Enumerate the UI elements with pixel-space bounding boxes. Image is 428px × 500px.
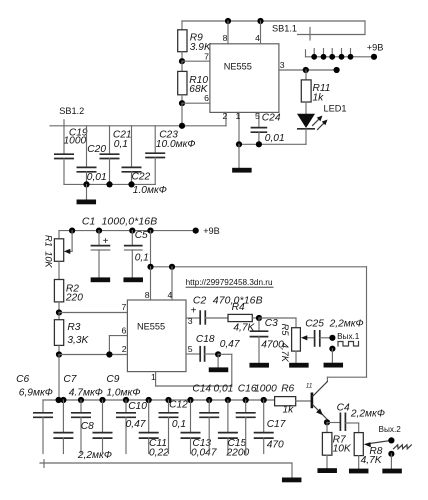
svg-text:SB1.2: SB1.2 xyxy=(59,106,84,116)
capacitor C20 xyxy=(86,126,88,167)
svg-text:C17: C17 xyxy=(267,419,286,430)
wire R4 to node xyxy=(252,317,259,319)
node C22 bottom junction xyxy=(128,181,134,187)
svg-text:2,2мкФ: 2,2мкФ xyxy=(329,319,364,330)
LED LED1 xyxy=(297,114,315,128)
svg-text:0,1: 0,1 xyxy=(172,419,186,430)
svg-text:R5: R5 xyxy=(280,324,290,337)
capacitor C3 xyxy=(258,318,260,331)
svg-text:2: 2 xyxy=(222,111,227,121)
wire R3 to ground bus xyxy=(58,355,60,401)
svg-text:0,01: 0,01 xyxy=(265,133,285,144)
ground output 2 xyxy=(390,454,392,469)
svg-text:1,0мкФ: 1,0мкФ xyxy=(106,387,140,398)
svg-text:3: 3 xyxy=(280,60,285,70)
svg-text:C2: C2 xyxy=(193,295,207,306)
capacitor C25 xyxy=(314,330,316,347)
node emitter junction xyxy=(324,419,330,425)
svg-text:6,9мкФ: 6,9мкФ xyxy=(19,387,53,398)
switch SB1.1 xyxy=(298,21,366,35)
svg-text:+9B: +9B xyxy=(367,43,384,53)
svg-text:+: + xyxy=(103,236,109,247)
svg-text:6: 6 xyxy=(204,93,209,103)
node C24 ground junction xyxy=(256,141,262,147)
Q1 collector xyxy=(313,382,328,397)
svg-text:0,1: 0,1 xyxy=(135,252,149,263)
capacitor C15 xyxy=(227,400,229,432)
capacitor C1 electrolytic xyxy=(98,231,100,246)
LED1 light arrows xyxy=(313,116,328,130)
capacitor C11 xyxy=(148,400,150,432)
capacitor C12 xyxy=(168,400,170,412)
svg-text:1000: 1000 xyxy=(64,136,87,147)
node output 1 ground terminal xyxy=(329,346,335,352)
node pin4 branch junction xyxy=(169,264,175,270)
svg-text:0,47: 0,47 xyxy=(220,339,240,350)
svg-text:6: 6 xyxy=(122,325,127,335)
wire R10 to rail xyxy=(181,103,183,126)
wire pin 5 chip2 xyxy=(186,353,199,355)
node pin3/R11 junction xyxy=(303,67,309,73)
wire ground bus top circuit xyxy=(239,143,306,145)
node C14 bus junction xyxy=(206,397,212,403)
svg-text:Вых.1: Вых.1 xyxy=(337,332,360,341)
wire bottom ground line xyxy=(40,462,292,464)
wire pin 2 chip2 xyxy=(59,354,127,356)
node C5 rail junction xyxy=(129,228,135,234)
svg-text:NE555: NE555 xyxy=(137,322,165,332)
svg-text:1000: 1000 xyxy=(254,383,277,394)
capacitor C16 xyxy=(245,400,247,412)
capacitor C5 xyxy=(131,231,133,246)
R5 wiper arm xyxy=(306,337,314,339)
wire pin 6 chip2 xyxy=(109,335,127,337)
wire node to R5 xyxy=(259,317,296,319)
node R10 rail junction xyxy=(179,123,185,129)
node pin3 wire end xyxy=(334,67,340,73)
svg-text:0,1: 0,1 xyxy=(114,139,128,150)
op-amp U1 NE555 timer xyxy=(210,44,279,113)
resistor R11 xyxy=(305,70,307,80)
node pin8 top rail junction xyxy=(225,18,231,24)
node R4/C3/R5 junction xyxy=(256,315,262,321)
capacitor C21 xyxy=(109,126,111,154)
connector pin dots xyxy=(311,54,317,60)
potentiometer R8 xyxy=(354,433,363,456)
ground output 1 xyxy=(331,349,333,363)
svg-text:4,7K: 4,7K xyxy=(280,343,290,363)
wire pin 4 xyxy=(260,21,262,44)
wire +9V top rail xyxy=(182,20,365,22)
node C13 bus junction xyxy=(187,397,193,403)
svg-text:NE555: NE555 xyxy=(224,62,252,72)
ground R8 xyxy=(349,469,369,474)
svg-text:C14: C14 xyxy=(192,383,211,394)
svg-text:2,2мкФ: 2,2мкФ xyxy=(77,450,112,461)
node C1 rail junction xyxy=(96,228,102,234)
wire pin 3 chip2 xyxy=(186,317,199,319)
svg-text:0,01: 0,01 xyxy=(214,383,234,394)
ground C3 xyxy=(249,363,269,368)
svg-text:8: 8 xyxy=(145,290,150,300)
wire C4 to R8 xyxy=(345,422,358,424)
sawtooth wave symbol xyxy=(394,445,412,449)
capacitor C13 xyxy=(190,400,192,432)
wire ground bus bottom xyxy=(43,399,275,401)
svg-text:C5: C5 xyxy=(135,230,148,241)
svg-text:0,47: 0,47 xyxy=(126,419,146,430)
svg-text:2: 2 xyxy=(122,344,127,354)
svg-text:C20: C20 xyxy=(87,144,106,155)
node R3 bus junction xyxy=(56,397,62,403)
svg-text:C9: C9 xyxy=(106,374,119,385)
svg-text:C1: C1 xyxy=(82,217,96,228)
svg-text:3: 3 xyxy=(188,316,193,326)
svg-text:4.7мкФ: 4.7мкФ xyxy=(69,387,103,398)
svg-text:10.0мкФ: 10.0мкФ xyxy=(156,139,196,150)
svg-text:8: 8 xyxy=(223,33,228,43)
svg-text:R4: R4 xyxy=(232,302,245,313)
svg-text:C18: C18 xyxy=(196,334,215,345)
node C16 bus junction xyxy=(243,397,249,403)
wire pin 6 xyxy=(182,102,210,104)
svg-text:10K: 10K xyxy=(44,251,54,268)
capacitor C24 xyxy=(251,127,268,129)
svg-text:5: 5 xyxy=(188,344,193,354)
potentiometer R5 xyxy=(292,328,301,351)
svg-text:3,3K: 3,3K xyxy=(67,335,89,346)
node R1 wiper rail junction xyxy=(69,228,75,234)
ground top circuit xyxy=(238,144,240,168)
capacitor C18 xyxy=(199,346,201,362)
capacitor C4 plates xyxy=(339,413,341,432)
svg-text:R3: R3 xyxy=(67,322,80,333)
node +9B terminal xyxy=(371,54,377,60)
ground left top circuit xyxy=(86,184,88,199)
svg-text:220: 220 xyxy=(65,292,83,303)
node pin6/pin2 junction xyxy=(106,351,112,357)
wire collector feed xyxy=(366,267,368,377)
wire pin 1 chip2 xyxy=(155,372,157,386)
svg-text:LED1: LED1 xyxy=(324,104,347,114)
svg-text:SB1.1: SB1.1 xyxy=(272,24,297,34)
svg-text:C25: C25 xyxy=(305,319,324,330)
capacitor C2 electrolytic xyxy=(199,310,201,324)
node C20 bottom junction xyxy=(83,181,89,187)
svg-text:4: 4 xyxy=(255,33,260,43)
R1 wiper arm xyxy=(71,231,73,252)
svg-text:1: 1 xyxy=(151,372,156,382)
wire pin 1 xyxy=(238,112,240,144)
svg-text:4: 4 xyxy=(167,290,172,300)
svg-text:0,01: 0,01 xyxy=(87,172,107,183)
svg-text:C8: C8 xyxy=(81,421,94,432)
wire pin 8 xyxy=(227,21,229,44)
wire R6 to base xyxy=(296,400,312,402)
wire pin 7 xyxy=(182,60,210,62)
node R2/R3/pin7 junction xyxy=(56,309,62,315)
capacitor C10 xyxy=(125,400,127,412)
node C10 bus junction xyxy=(123,397,129,403)
resistor R4 xyxy=(228,314,252,321)
svg-text:C7: C7 xyxy=(63,374,76,385)
svg-text:+: + xyxy=(191,305,197,316)
svg-text:C22: C22 xyxy=(132,172,151,183)
svg-text:+9B: +9B xyxy=(203,226,220,236)
capacitor C23 xyxy=(154,126,156,153)
capacitor C8 xyxy=(62,400,64,432)
capacitor C14 xyxy=(208,400,210,412)
svg-text:7: 7 xyxy=(204,51,209,61)
svg-text:7: 7 xyxy=(122,302,127,312)
resistor R6 xyxy=(275,397,296,406)
connector pin ticks xyxy=(313,49,315,55)
Q1 emitter xyxy=(313,405,327,419)
svg-text:0,22: 0,22 xyxy=(149,447,169,458)
svg-text:0,047: 0,047 xyxy=(191,447,217,458)
ground R7 xyxy=(317,468,337,473)
node supply branch junction xyxy=(147,228,153,234)
capacitor C7 xyxy=(80,400,82,412)
node +9B terminal bottom xyxy=(193,228,199,234)
resistor R10 xyxy=(181,61,183,71)
ground C5 xyxy=(123,277,143,282)
node output 2 ground terminal xyxy=(388,451,394,457)
wire pin 2 xyxy=(225,112,227,125)
wire pin 7 chip2 xyxy=(59,312,127,314)
wire capacitor bottom rail xyxy=(64,183,155,185)
wire SB1.2 rail xyxy=(50,125,226,127)
ground bottom bus xyxy=(291,463,293,478)
node C15 bus junction xyxy=(225,397,231,403)
wire pin 4 chip2 xyxy=(171,267,173,300)
svg-text:4,7K: 4,7K xyxy=(361,455,383,466)
capacitor C17 xyxy=(263,400,265,432)
R8 wiper arm xyxy=(369,440,391,443)
capacitor C19 xyxy=(63,126,65,154)
svg-text:2,2мкФ: 2,2мкФ xyxy=(350,409,385,420)
svg-text:C3: C3 xyxy=(265,318,278,329)
svg-text:10K: 10K xyxy=(333,444,352,455)
svg-text:http://299792458.3dn.ru: http://299792458.3dn.ru xyxy=(186,278,273,287)
resistor R7 xyxy=(326,422,328,432)
svg-text:1k: 1k xyxy=(313,93,325,104)
square wave symbol xyxy=(338,342,359,347)
wire pin 3 xyxy=(279,69,337,71)
node C7 bus junction xyxy=(78,397,84,403)
node output 1 terminal xyxy=(329,335,335,341)
node output 2 terminal xyxy=(388,437,394,443)
transistor Q1 xyxy=(311,393,314,409)
wire pin 5 xyxy=(258,112,260,127)
resistor R3 xyxy=(58,313,60,320)
capacitor C6 xyxy=(42,400,44,412)
node C12 bus junction xyxy=(165,397,171,403)
node R3/pin2 junction xyxy=(56,351,62,357)
capacitor C4 xyxy=(327,422,340,424)
svg-text:1k: 1k xyxy=(283,405,295,416)
node C17 bus junction xyxy=(261,397,267,403)
svg-text:1.0мкФ: 1.0мкФ xyxy=(133,185,167,196)
svg-text:C4: C4 xyxy=(337,403,350,414)
wire C2 to R4 xyxy=(205,317,228,319)
svg-text:1000,0*16B: 1000,0*16B xyxy=(102,217,158,228)
wire pin 8 chip2 xyxy=(150,267,152,300)
node C18 ground junction xyxy=(215,351,221,357)
wire supply branch xyxy=(150,231,152,267)
ground C1 xyxy=(91,277,111,282)
svg-text:C24: C24 xyxy=(262,112,281,123)
svg-text:R1: R1 xyxy=(44,235,54,247)
node C11 bus junction xyxy=(146,397,152,403)
op-amp U2 NE555 timer xyxy=(127,300,186,372)
wire +9V rail bottom circuit xyxy=(59,230,196,232)
resistor R2 xyxy=(54,280,63,302)
ground R5 xyxy=(289,363,309,368)
node pin8 branch junction xyxy=(147,264,153,270)
ground C18 xyxy=(217,354,219,367)
capacitor C22 xyxy=(131,126,133,167)
node C21 bottom junction xyxy=(106,181,112,187)
switch SB1.2 contact tick xyxy=(63,120,65,126)
capacitor C9 xyxy=(102,400,104,432)
svg-text:C10: C10 xyxy=(128,401,147,412)
svg-text:470: 470 xyxy=(267,440,284,451)
svg-text:5: 5 xyxy=(255,111,260,121)
resistor R9 xyxy=(181,21,183,30)
potentiometer R1 xyxy=(58,231,60,239)
node R10/pin6 junction xyxy=(179,100,185,106)
svg-text:1: 1 xyxy=(236,111,241,121)
node C9 bus junction xyxy=(99,397,105,403)
node pin4 top rail junction xyxy=(257,18,263,24)
svg-text:11: 11 xyxy=(306,383,312,390)
connector +9V pin row xyxy=(306,56,375,58)
svg-text:R6: R6 xyxy=(281,383,294,394)
svg-text:C6: C6 xyxy=(16,374,29,385)
node R9/R10/pin7 junction xyxy=(179,58,185,64)
svg-text:Вых.2: Вых.2 xyxy=(379,425,402,434)
svg-text:C12: C12 xyxy=(169,400,188,411)
node pin1 ground junction xyxy=(236,141,242,147)
